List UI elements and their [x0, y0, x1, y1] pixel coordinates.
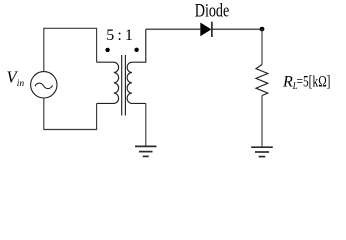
diode cathode bar — [211, 22, 213, 37]
svg-text:in: in — [17, 79, 25, 89]
ground under transformer — [135, 146, 157, 156]
wire node to resistor — [261, 29, 263, 64]
wire resistor to ground — [261, 96, 263, 147]
diode D1 — [200, 23, 211, 37]
phase dot secondary — [134, 48, 138, 52]
ground under resistor — [251, 147, 273, 156]
transformer T1 secondary winding — [127, 29, 146, 103]
wire secondary bottom to ground — [145, 103, 147, 146]
wire primary bottom to source (bottom-left rail) — [44, 98, 97, 130]
sine symbol inside source — [35, 83, 53, 88]
svg-text:=5[kΩ]: =5[kΩ] — [297, 74, 331, 91]
voltage source Vin — [31, 72, 57, 98]
svg-text:5 : 1: 5 : 1 — [106, 27, 133, 44]
svg-text:Diode: Diode — [195, 2, 230, 22]
wire diode to node — [213, 28, 263, 30]
phase dot primary — [105, 48, 109, 52]
svg-text:R: R — [282, 74, 293, 91]
resistor RL — [256, 65, 268, 96]
transformer core — [121, 55, 123, 116]
wire source top to primary (top-left rail) — [44, 28, 97, 71]
transformer T1 primary winding — [97, 62, 119, 103]
wire secondary top to diode — [146, 28, 201, 30]
junction node dot — [260, 27, 265, 32]
